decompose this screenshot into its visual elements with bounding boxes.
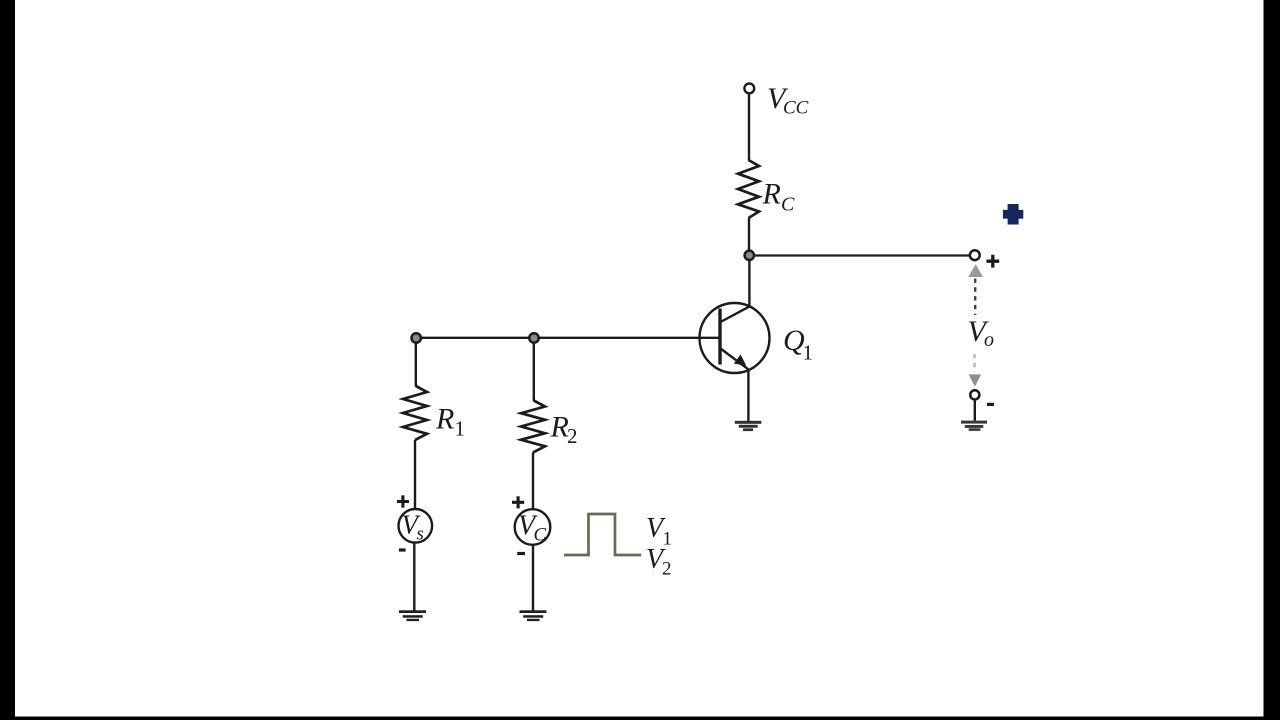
wire node B1 to R1 — [415, 343, 417, 387]
svg-text:R: R — [550, 410, 569, 443]
svg-text:1: 1 — [663, 529, 673, 550]
svg-text:1: 1 — [803, 341, 814, 365]
node output plus terminal — [970, 250, 980, 260]
label V1 — [646, 513, 672, 550]
wire R2 to Vc — [532, 453, 534, 510]
svg-text:C: C — [534, 525, 547, 546]
plus sign at output — [986, 255, 999, 268]
wire base from node B1 to Q1 base — [416, 337, 720, 339]
left letterbox bar — [0, 0, 15, 720]
dashed line upper Vo — [974, 279, 976, 316]
label RC — [762, 178, 796, 216]
label Q1 — [783, 324, 813, 365]
source Vs — [399, 509, 433, 545]
wire output terminal to ground — [974, 400, 976, 421]
plus sign of Vc — [512, 496, 524, 508]
wire collector node down to Q1 — [748, 260, 750, 307]
transistor Q1 — [700, 303, 770, 373]
svg-text:R: R — [762, 178, 781, 211]
right letterbox bar — [1264, 0, 1280, 720]
ground at output — [961, 421, 987, 431]
ground under Vc — [520, 610, 547, 621]
wire node B2 to R2 — [533, 343, 535, 401]
wire Q1 emitter to ground — [747, 370, 749, 422]
svg-text:2: 2 — [662, 559, 672, 580]
bottom letterbox bar — [0, 717, 1280, 720]
source Vc — [515, 509, 551, 545]
ground under Vs — [399, 610, 426, 621]
svg-text:R: R — [435, 403, 454, 436]
svg-text:2: 2 — [567, 424, 578, 448]
wire Vc to ground — [532, 545, 534, 611]
label R1 — [435, 403, 465, 441]
node output minus terminal — [970, 390, 979, 399]
junction node B1 — [412, 333, 421, 342]
node VCC terminal — [744, 84, 754, 94]
resistor RC — [738, 160, 759, 218]
label V2 — [646, 544, 672, 580]
resistor R2 — [521, 401, 545, 453]
label VCC — [767, 82, 809, 119]
label Vo — [968, 315, 995, 351]
wire VCC to RC — [748, 94, 750, 161]
dashed line lower Vo — [973, 354, 975, 372]
wire Vs to ground — [413, 543, 415, 611]
arrow down at output — [969, 374, 982, 386]
svg-text:1: 1 — [455, 417, 466, 441]
arrow up at output — [968, 264, 983, 277]
svg-text:o: o — [984, 329, 994, 351]
svg-text:C: C — [781, 194, 795, 216]
svg-text:CC: CC — [783, 98, 809, 119]
pulse waveform symbol — [564, 514, 641, 555]
wire RC to collector node — [748, 218, 750, 255]
ground under Q1 — [735, 421, 762, 431]
minus sign of Vs — [399, 548, 406, 551]
plus cross icon — [1003, 204, 1023, 224]
minus sign at output — [987, 403, 994, 406]
plus sign of Vs — [397, 495, 409, 507]
minus sign of Vc — [517, 552, 525, 555]
wire collector node to output terminal — [754, 254, 970, 256]
label R2 — [550, 410, 578, 448]
junction collector node — [745, 251, 754, 260]
svg-text:s: s — [417, 524, 424, 545]
junction node B2 — [529, 333, 538, 342]
resistor R1 — [403, 386, 427, 440]
wire R1 to Vs — [414, 440, 416, 509]
